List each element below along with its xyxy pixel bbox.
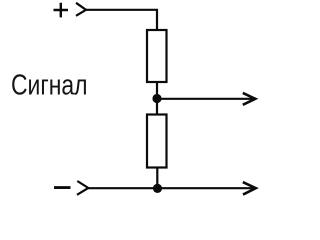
resistor R1 (upper divider resistor) bbox=[147, 30, 167, 82]
wire: R1 bottom to node A and on to R2 top bbox=[156, 82, 158, 115]
wire: output tap from node A to the right bbox=[157, 98, 254, 100]
input arrow top-left (open arrowhead) bbox=[76, 3, 86, 16]
arrowhead: output tap bbox=[243, 93, 256, 105]
node A (junction dot, divider output) bbox=[152, 94, 161, 103]
terminal - (minus sign, bottom input) bbox=[54, 186, 71, 189]
arrowhead: bottom rail output bbox=[243, 182, 256, 195]
node B (junction dot, bottom rail) bbox=[153, 184, 162, 193]
resistor R2 (lower divider resistor) bbox=[147, 115, 167, 168]
wire: top rail from input arrow to corner, down to R1 bbox=[86, 10, 158, 30]
wire: R2 bottom to node B bbox=[156, 168, 158, 189]
wire: bottom rail from input arrow through node B to the right bbox=[88, 187, 255, 189]
input arrow bottom-left (open arrowhead) bbox=[77, 181, 88, 195]
terminal + (plus sign, top input) bbox=[54, 3, 69, 18]
svg-text:Сигнал: Сигнал bbox=[11, 69, 88, 101]
